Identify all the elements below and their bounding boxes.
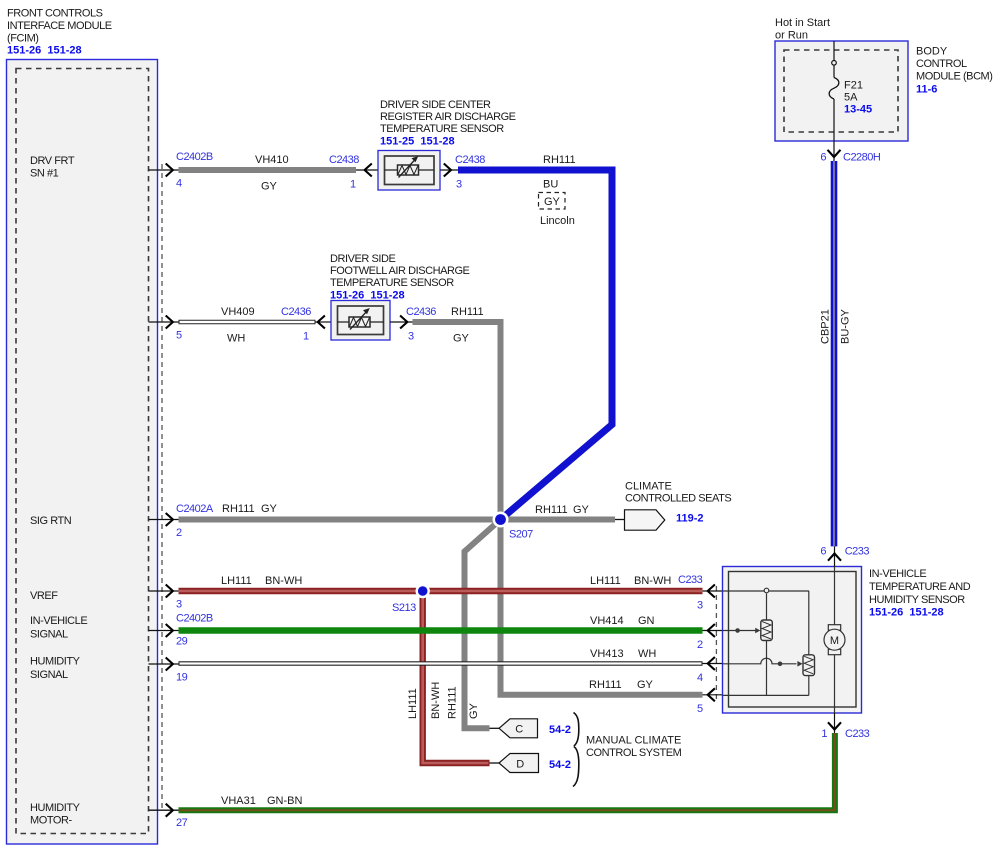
svg-text:54-2: 54-2 (549, 759, 571, 771)
label hot in start or run (775, 17, 830, 42)
svg-text:Hot in Start: Hot in Start (775, 17, 830, 29)
svg-text:DRIVER SIDE: DRIVER SIDE (330, 253, 395, 265)
offpage connector climate controlled seats 119-2 (625, 481, 732, 531)
svg-text:C233: C233 (678, 574, 703, 586)
sensor T1 driver side center register air discharge temperature sensor (378, 151, 440, 191)
svg-text:SN #1: SN #1 (30, 168, 59, 180)
svg-text:GY: GY (544, 196, 561, 208)
svg-text:11-6: 11-6 (916, 84, 937, 96)
svg-text:RH111: RH111 (535, 504, 568, 516)
svg-text:19: 19 (176, 672, 188, 684)
svg-text:6: 6 (820, 152, 826, 164)
sensor internal line pin4 with hump (723, 658, 803, 666)
svg-text:LH111: LH111 (407, 688, 419, 719)
svg-text:GY: GY (453, 333, 470, 345)
svg-text:REGISTER AIR DISCHARGE: REGISTER AIR DISCHARGE (380, 111, 516, 123)
svg-text:SIG RTN: SIG RTN (30, 515, 72, 527)
svg-text:or Run: or Run (775, 30, 808, 42)
svg-text:27: 27 (176, 817, 188, 829)
svg-text:IN-VEHICLE: IN-VEHICLE (30, 615, 87, 627)
svg-text:2: 2 (697, 639, 703, 651)
wire VH410 GY pin4 to C2438-1 (179, 154, 357, 193)
node C233 pin 5 (697, 688, 723, 715)
node C2438 pin 1 (329, 154, 378, 191)
svg-text:5: 5 (176, 330, 182, 342)
svg-text:2: 2 (176, 527, 182, 539)
node C2438 pin 3 (440, 154, 485, 191)
svg-text:C2438: C2438 (329, 154, 359, 166)
wire VH414 GN pin29 to C233-2 (179, 615, 703, 631)
node C233 pin 6 (820, 546, 869, 567)
module BCM box (775, 41, 908, 141)
svg-text:4: 4 (176, 178, 182, 190)
svg-text:5A: 5A (844, 92, 858, 104)
wire VH409 WH pin5 to C2436-1 (179, 306, 316, 345)
sensor internal bottom rail pin5 (723, 694, 809, 696)
svg-text:3: 3 (408, 331, 414, 343)
svg-text:5: 5 (697, 703, 703, 715)
svg-text:BODY: BODY (916, 46, 948, 58)
wire VHA31 GN-BN pin27 to C233-1 (179, 733, 835, 810)
svg-text:151-26 151-28: 151-26 151-28 (869, 607, 944, 619)
pin 4 FCIM (149, 151, 213, 190)
svg-text:DRV FRT: DRV FRT (30, 155, 75, 167)
svg-text:151-26 151-28: 151-26 151-28 (7, 45, 82, 57)
svg-text:C233: C233 (845, 546, 870, 558)
svg-text:54-2: 54-2 (549, 724, 571, 736)
svg-text:RH111: RH111 (222, 503, 255, 515)
node C233 pin 2 (697, 624, 723, 651)
svg-text:TEMPERATURE SENSOR: TEMPERATURE SENSOR (330, 277, 454, 289)
fuse F21 5A (829, 41, 872, 141)
node C2436 pin 3 (390, 306, 436, 343)
svg-text:RH111: RH111 (589, 679, 622, 691)
svg-text:C2436: C2436 (281, 306, 311, 318)
svg-text:M: M (830, 635, 839, 647)
wire RH111 GY splice S207 to climate seats (501, 504, 625, 520)
svg-text:FOOTWELL AIR DISCHARGE: FOOTWELL AIR DISCHARGE (330, 265, 470, 277)
svg-text:GY: GY (573, 504, 590, 516)
offpage connector C 54-2 (490, 719, 572, 738)
svg-text:GY: GY (468, 702, 480, 719)
svg-text:S213: S213 (392, 602, 416, 614)
svg-text:MODULE (BCM): MODULE (BCM) (916, 71, 993, 83)
svg-text:Lincoln: Lincoln (540, 215, 575, 227)
svg-text:D: D (516, 759, 524, 771)
svg-text:MOTOR-: MOTOR- (30, 815, 72, 827)
sensor in-vehicle temperature and humidity box (723, 567, 862, 714)
module FCIM box (7, 60, 158, 845)
svg-text:F21: F21 (844, 80, 863, 92)
wire RH111 GY splice S207 down to C233-5 (501, 520, 703, 695)
svg-text:BU: BU (543, 179, 558, 191)
svg-text:VH409: VH409 (221, 306, 255, 318)
wire RH111 GY pin2 to splice S207 (179, 503, 501, 520)
node C233 pin 3 (678, 574, 723, 612)
svg-text:GY: GY (261, 181, 278, 193)
svg-text:13-45: 13-45 (844, 104, 872, 116)
connector C233 dashed line (715, 586, 717, 702)
svg-text:LH111: LH111 (221, 575, 252, 587)
svg-text:29: 29 (176, 636, 188, 648)
svg-text:S207: S207 (509, 529, 533, 541)
label pin HUMIDITY MOTOR- (30, 802, 81, 827)
svg-text:IN-VEHICLE: IN-VEHICLE (869, 568, 926, 580)
svg-text:119-2: 119-2 (676, 513, 704, 525)
svg-text:MANUAL CLIMATE: MANUAL CLIMATE (586, 735, 681, 747)
svg-text:C2280H: C2280H (843, 152, 881, 164)
sensor T2 driver side footwell air discharge temperature sensor (331, 301, 390, 341)
wire RH111 GY from C2436-3 down to splice S207 (413, 306, 501, 520)
svg-text:BN-WH: BN-WH (265, 575, 302, 587)
svg-text:151-25 151-28: 151-25 151-28 (380, 136, 455, 148)
svg-text:GN: GN (638, 615, 655, 627)
svg-text:TEMPERATURE SENSOR: TEMPERATURE SENSOR (380, 123, 504, 135)
svg-text:RH111: RH111 (447, 686, 459, 719)
svg-text:VREF: VREF (30, 590, 58, 602)
svg-text:VH410: VH410 (255, 154, 289, 166)
svg-text:SIGNAL: SIGNAL (30, 629, 68, 641)
label pin IN-VEHICLE SIGNAL (30, 615, 87, 641)
svg-text:151-26 151-28: 151-26 151-28 (330, 290, 405, 302)
node C233 pin 4 (697, 657, 723, 684)
sensor internal resistor R1 (761, 594, 773, 696)
svg-text:1: 1 (303, 331, 309, 343)
svg-text:C233: C233 (845, 728, 870, 740)
svg-text:C2402A: C2402A (176, 503, 214, 515)
pin 2 FCIM (149, 503, 214, 539)
svg-text:GY: GY (637, 679, 654, 691)
svg-text:CLIMATE: CLIMATE (625, 481, 672, 493)
sensor internal top line pin3 (723, 588, 810, 593)
wire RH111 BU from C2438-3 to splice S207 (458, 154, 612, 520)
offpage connector D 54-2 (490, 754, 572, 773)
svg-text:TEMPERATURE AND: TEMPERATURE AND (869, 581, 971, 593)
svg-text:WH: WH (227, 333, 245, 345)
label manual climate control system (586, 735, 682, 760)
wire CBP21 BU-GY BCM to C233-6 (831, 161, 838, 546)
svg-text:VH413: VH413 (590, 648, 624, 660)
svg-text:LH111: LH111 (590, 575, 621, 587)
svg-text:RH111: RH111 (451, 306, 484, 318)
svg-text:C2436: C2436 (406, 306, 436, 318)
node C233 pin 1 (821, 713, 869, 740)
sensor internal wiper pin2 (723, 628, 761, 634)
sensor internal motor M (824, 567, 845, 714)
svg-text:BN-WH: BN-WH (430, 682, 442, 719)
svg-text:3: 3 (697, 600, 703, 612)
label sensor T2 (330, 253, 470, 302)
sensor internal resistor R2 (803, 591, 815, 695)
pin 27 FCIM (149, 804, 188, 829)
pin 5 FCIM (149, 316, 183, 342)
pin 29 FCIM (149, 613, 213, 648)
node C2436 pin 1 (281, 306, 331, 343)
label pin DRV FRT SN #1 (30, 155, 75, 180)
svg-text:4: 4 (697, 672, 703, 684)
connector C2402 dashed line (161, 164, 163, 812)
wire LH111 BN-WH splice S213 down to connector D (423, 591, 490, 763)
svg-text:C2402B: C2402B (176, 151, 213, 163)
svg-text:3: 3 (456, 179, 462, 191)
wire RH111 GY splice S207 diagonal down to connector C (465, 520, 501, 729)
svg-text:HUMIDITY SENSOR: HUMIDITY SENSOR (869, 594, 965, 606)
svg-text:CONTROLLED SEATS: CONTROLLED SEATS (625, 493, 731, 505)
svg-text:CONTROL SYSTEM: CONTROL SYSTEM (586, 747, 682, 759)
splice S207 (493, 512, 534, 541)
svg-text:SIGNAL: SIGNAL (30, 669, 68, 681)
svg-text:CBP21: CBP21 (820, 309, 832, 344)
wire LH111 BN-WH pin3 to C233-3 (179, 575, 703, 591)
svg-text:HUMIDITY: HUMIDITY (30, 656, 81, 668)
svg-text:CONTROL: CONTROL (916, 58, 967, 70)
svg-text:VH414: VH414 (590, 615, 624, 627)
brace connector D (573, 747, 579, 787)
node C2280H pin 6 (820, 141, 881, 164)
svg-text:C: C (515, 724, 523, 736)
svg-text:WH: WH (638, 648, 656, 660)
label BCM (916, 46, 993, 96)
svg-text:RH111: RH111 (543, 154, 576, 166)
svg-text:BN-WH: BN-WH (634, 575, 671, 587)
brace connector C (574, 713, 579, 747)
wire VH413 WH pin19 to C233-4 (179, 648, 703, 664)
label in-vehicle sensor (869, 568, 971, 619)
svg-text:INTERFACE MODULE: INTERFACE MODULE (7, 20, 112, 32)
svg-text:1: 1 (821, 728, 827, 740)
label pin HUMIDITY SIGNAL (30, 656, 81, 682)
svg-text:GY: GY (261, 503, 278, 515)
svg-text:6: 6 (820, 546, 826, 558)
label FCIM title (7, 8, 112, 57)
splice S213 (392, 584, 430, 614)
svg-text:GN-BN: GN-BN (267, 795, 303, 807)
label GY Lincoln option box (539, 193, 575, 228)
svg-text:3: 3 (176, 599, 182, 611)
pin 3 FCIM (149, 585, 183, 611)
svg-text:VHA31: VHA31 (221, 795, 256, 807)
pin 19 FCIM (149, 658, 188, 684)
svg-text:C2402B: C2402B (176, 613, 213, 625)
svg-text:DRIVER SIDE CENTER: DRIVER SIDE CENTER (380, 99, 491, 111)
svg-text:FRONT CONTROLS: FRONT CONTROLS (7, 8, 103, 20)
label sensor T1 (380, 99, 516, 148)
svg-text:HUMIDITY: HUMIDITY (30, 802, 81, 814)
svg-text:1: 1 (350, 179, 356, 191)
svg-text:C2438: C2438 (455, 154, 485, 166)
svg-text:(FCIM): (FCIM) (7, 32, 39, 44)
svg-text:BU-GY: BU-GY (840, 309, 852, 345)
